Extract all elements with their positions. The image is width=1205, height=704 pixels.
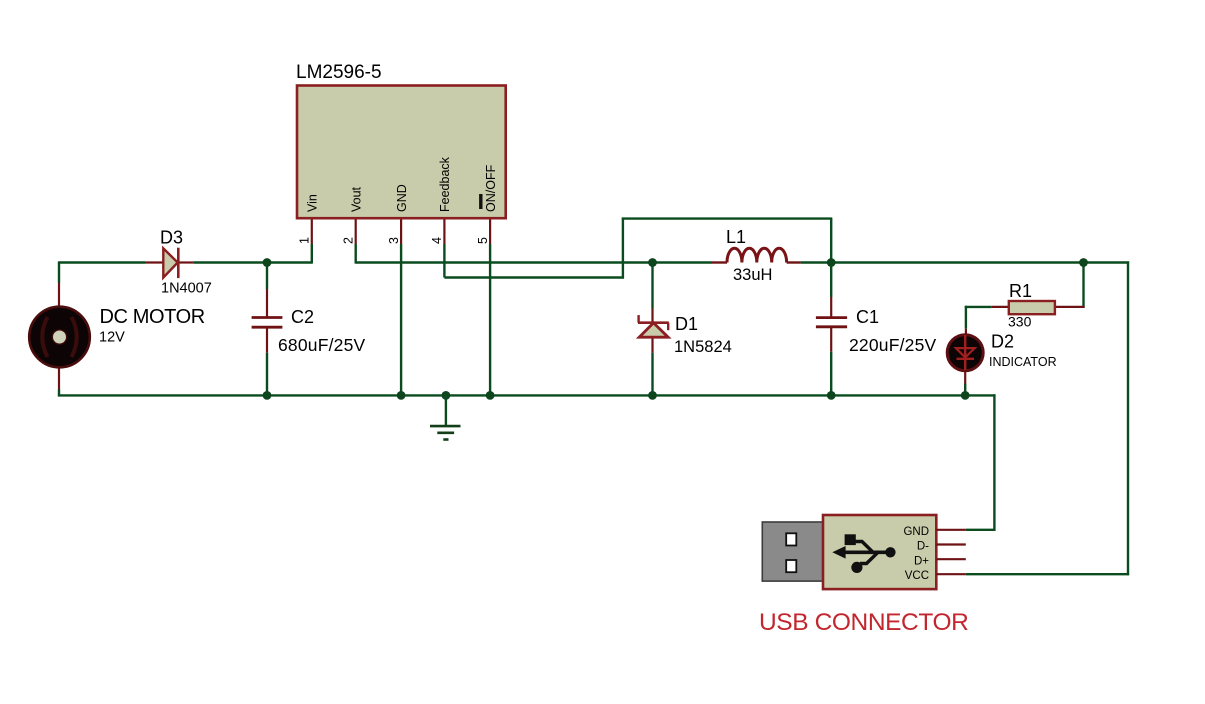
svg-text:D2: D2 <box>991 332 1014 352</box>
wire R1 left corner vertical to D2 <box>965 306 967 336</box>
wire motor bottom vertical <box>58 367 60 396</box>
wire C1 bottom stub <box>830 326 832 395</box>
wire feedback horizontal lower <box>444 276 624 278</box>
junction node C1 / feedback top <box>827 258 836 267</box>
USB trident logo <box>832 534 895 573</box>
wire ground hook to USB GND: horizontal right <box>965 394 995 396</box>
wire R1 left lead horizontal green part <box>965 306 992 308</box>
svg-text:2: 2 <box>341 237 355 244</box>
wire pin3 GND vertical <box>400 218 402 395</box>
wire C2 bottom stub <box>266 327 268 396</box>
USB connector J1 body <box>823 515 936 589</box>
wire feedback vertical down to output rail <box>830 219 832 263</box>
wire C2 top stub <box>266 263 268 319</box>
svg-text:GND: GND <box>903 526 929 538</box>
svg-text:DC MOTOR: DC MOTOR <box>100 306 205 328</box>
junction node C2 top <box>263 258 272 267</box>
wire pin2 stub vertical <box>355 218 357 263</box>
svg-text:L1: L1 <box>726 227 746 247</box>
capacitor C2 <box>252 318 283 328</box>
wire R1 branch vertical from output rail <box>1082 263 1084 309</box>
junction node pin3 ground <box>397 391 406 400</box>
svg-text:33uH: 33uH <box>733 266 772 284</box>
svg-text:Feedback: Feedback <box>438 156 452 212</box>
junction node D1 top <box>648 258 657 267</box>
junction node R1 branch <box>1079 258 1088 267</box>
USB pin D+ stub <box>936 558 966 560</box>
wire feedback vertical up <box>622 218 624 279</box>
svg-text:Vin: Vin <box>306 194 320 212</box>
wire right edge vertical <box>1127 261 1129 575</box>
wire D1 bottom stub <box>651 337 653 395</box>
svg-text:5: 5 <box>476 237 490 244</box>
svg-text:D+: D+ <box>914 555 929 567</box>
wire output rail L1 to top-right corner <box>801 261 1130 263</box>
wire pin1 stub vertical <box>311 218 313 263</box>
svg-text:4: 4 <box>430 237 444 244</box>
svg-text:INDICATOR: INDICATOR <box>989 355 1057 369</box>
wire ground hook horizontal to GND pin <box>966 529 996 531</box>
wire input rail motor-top vertical <box>58 263 60 309</box>
svg-text:C2: C2 <box>291 307 314 327</box>
svg-text:D1: D1 <box>675 314 698 334</box>
svg-text:D3: D3 <box>160 228 183 248</box>
USB plug metal shell <box>762 522 823 581</box>
wire D2 bottom stub <box>964 370 966 395</box>
svg-text:680uF/25V: 680uF/25V <box>278 335 366 355</box>
ground symbol <box>430 395 461 439</box>
svg-text:1N4007: 1N4007 <box>161 281 212 297</box>
junction node D1 bottom <box>648 391 657 400</box>
junction node C1 bottom <box>827 391 836 400</box>
svg-text:C1: C1 <box>856 307 879 327</box>
wire C1 top stub <box>830 263 832 319</box>
svg-text:ON/OFF: ON/OFF <box>484 164 498 212</box>
op-amp U1 regulator LM2596-5 body <box>297 86 506 219</box>
LED D2 <box>947 335 983 371</box>
svg-text:GND: GND <box>395 184 409 212</box>
capacitor C1 <box>816 318 847 327</box>
USB pin GND stub <box>936 529 966 531</box>
diode D1 schottky <box>638 315 669 337</box>
pin 5 name ON/OFF with overline <box>481 164 498 212</box>
svg-text:LM2596-5: LM2596-5 <box>296 62 382 83</box>
svg-text:Vout: Vout <box>349 186 363 212</box>
svg-text:1: 1 <box>298 237 312 244</box>
resistor R1 <box>992 301 1085 314</box>
wire output rail pin2 to L1 <box>356 261 712 263</box>
USB pin D- stub <box>936 543 966 545</box>
svg-text:USB CONNECTOR: USB CONNECTOR <box>759 609 968 636</box>
wire input rail horizontal right of D3 to pin 1 <box>193 261 311 263</box>
svg-text:R1: R1 <box>1009 281 1032 301</box>
inductor L1 <box>712 248 801 262</box>
junction node C2 bottom <box>263 391 272 400</box>
svg-text:3: 3 <box>387 237 401 244</box>
svg-text:1N5824: 1N5824 <box>674 338 732 356</box>
svg-text:D-: D- <box>917 541 929 553</box>
wire bottom ground rail <box>58 394 965 396</box>
wire ground hook vertical down <box>993 394 995 531</box>
svg-text:330: 330 <box>1008 314 1032 330</box>
motor M1 DC MOTOR <box>29 307 90 368</box>
junction node pin5 ground <box>486 391 495 400</box>
wire feedback horizontal top <box>622 217 833 219</box>
svg-text:220uF/25V: 220uF/25V <box>849 335 937 355</box>
junction node D2 bottom <box>961 391 970 400</box>
svg-text:12V: 12V <box>99 330 125 346</box>
wire pin5 ON/OFF vertical <box>489 218 491 395</box>
wire VCC horizontal <box>966 573 1129 575</box>
svg-text:VCC: VCC <box>905 570 929 582</box>
diode D3 <box>145 248 193 278</box>
wire input rail horizontal left of D3 <box>58 261 145 263</box>
wire pin4 feedback stub vertical <box>443 218 445 277</box>
junction node ground symbol <box>442 391 451 400</box>
wire D1 top stub <box>651 263 653 323</box>
USB pin VCC stub <box>936 573 966 575</box>
